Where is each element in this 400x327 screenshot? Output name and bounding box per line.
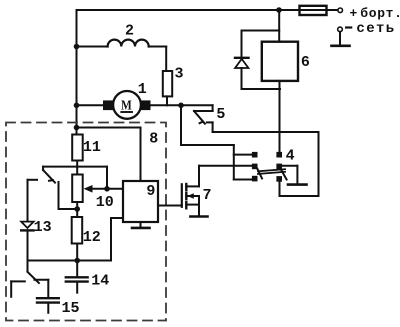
svg-text:M: M xyxy=(121,98,132,113)
svg-text:борт.: борт. xyxy=(360,6,400,21)
svg-text:8: 8 xyxy=(149,131,158,148)
svg-text:7: 7 xyxy=(203,187,212,204)
svg-text:+: + xyxy=(350,6,358,21)
svg-text:5: 5 xyxy=(216,106,225,123)
svg-text:1: 1 xyxy=(138,81,147,98)
svg-text:2: 2 xyxy=(125,23,134,40)
svg-text:9: 9 xyxy=(146,183,155,200)
svg-text:15: 15 xyxy=(62,300,80,317)
svg-text:сеть: сеть xyxy=(356,21,395,37)
svg-text:11: 11 xyxy=(83,139,101,156)
svg-text:4: 4 xyxy=(286,148,295,165)
svg-text:3: 3 xyxy=(175,66,184,83)
svg-text:10: 10 xyxy=(96,194,114,211)
svg-text:12: 12 xyxy=(83,229,101,246)
svg-text:6: 6 xyxy=(301,54,310,71)
svg-text:13: 13 xyxy=(34,219,52,236)
svg-text:14: 14 xyxy=(91,272,109,289)
